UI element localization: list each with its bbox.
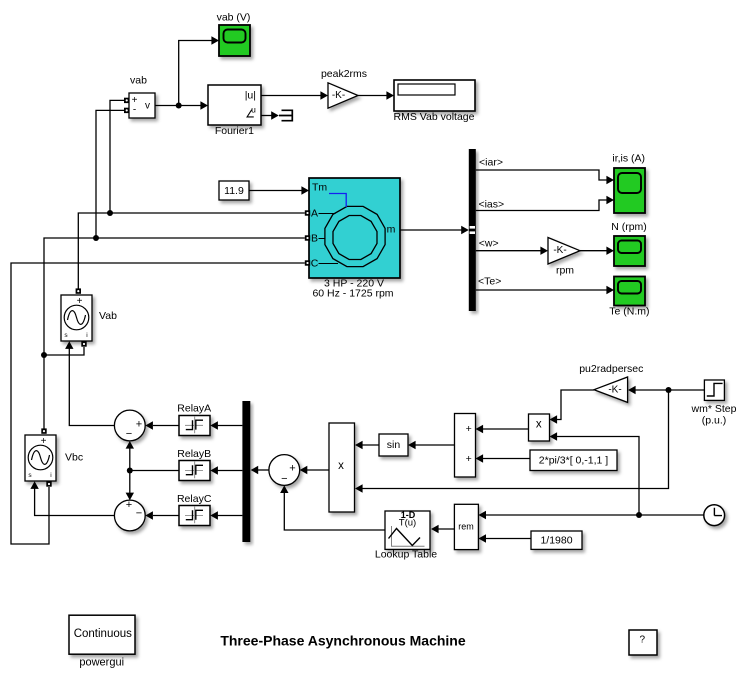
svg-text:-K-: -K- [332,90,345,101]
svg-text:(p.u.): (p.u.) [702,415,727,427]
svg-text:Vab: Vab [99,310,117,322]
svg-text:rem: rem [458,522,474,532]
svg-text:Vbc: Vbc [65,452,83,464]
svg-text:RelayC: RelayC [177,493,212,505]
svg-text:+: + [77,296,83,307]
svg-text:vab: vab [130,75,147,87]
svg-text:−: − [126,428,132,440]
svg-text:Three-Phase Asynchronous Machi: Three-Phase Asynchronous Machine [220,633,466,649]
svg-text:pu2radpersec: pu2radpersec [579,363,643,375]
svg-text:rpm: rpm [556,265,574,277]
svg-text:+: + [289,463,295,475]
svg-text:+: + [466,423,472,435]
svg-text:m: m [387,224,396,236]
svg-text:N (rpm): N (rpm) [611,221,647,233]
svg-text:Fourier1: Fourier1 [215,125,254,137]
svg-text:powergui: powergui [79,656,124,668]
svg-text:C: C [311,258,319,270]
svg-text:<ias>: <ias> [478,198,504,210]
svg-text:Lookup Table: Lookup Table [375,549,437,561]
svg-text:sin: sin [387,439,401,451]
svg-text:RelayA: RelayA [177,403,211,415]
svg-text:+: + [126,499,132,511]
svg-text:11.9: 11.9 [224,185,244,197]
svg-text:RelayB: RelayB [177,448,211,460]
svg-text:-K-: -K- [608,385,621,396]
svg-text:Tm: Tm [312,182,327,194]
svg-text:v: v [145,101,150,112]
svg-text:-K-: -K- [553,245,566,256]
svg-text:i: i [50,472,51,479]
svg-text:<Te>: <Te> [478,276,501,288]
svg-text:?: ? [640,635,646,646]
svg-text:i: i [86,332,87,339]
svg-text:peak2rms: peak2rms [321,68,367,80]
svg-text:x: x [338,460,344,472]
svg-text:+: + [136,418,142,430]
svg-text:B: B [311,233,318,245]
svg-text:1/1980: 1/1980 [540,534,572,546]
svg-text:T(u): T(u) [399,518,416,529]
svg-text:2*pi/3*[ 0,-1,1 ]: 2*pi/3*[ 0,-1,1 ] [539,454,609,466]
svg-text:Continuous: Continuous [74,628,132,640]
svg-text:<w>: <w> [479,237,499,249]
svg-text:RMS Vab voltage: RMS Vab voltage [394,111,475,123]
svg-text:A: A [311,208,318,220]
svg-text:vab (V): vab (V) [217,12,251,24]
svg-text:x: x [536,418,542,430]
svg-text:|u|: |u| [245,90,256,102]
svg-text:+: + [41,436,47,447]
svg-text:−: − [136,508,142,520]
svg-text:wm* Step: wm* Step [691,403,737,415]
svg-text:−: − [281,473,287,485]
svg-text:ir,is (A): ir,is (A) [612,153,645,165]
svg-text:Te (N.m): Te (N.m) [609,306,649,318]
svg-text:60 Hz - 1725 rpm: 60 Hz - 1725 rpm [312,288,393,300]
svg-text:+: + [466,453,472,465]
svg-text:<iar>: <iar> [479,156,503,168]
svg-text:-: - [133,105,136,116]
svg-text:u: u [251,105,256,115]
